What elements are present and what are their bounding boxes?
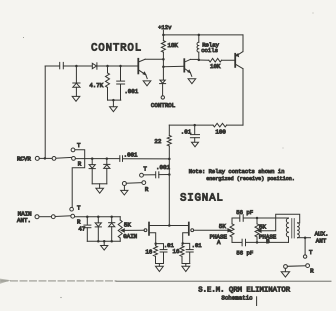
wire to Q2 base (163, 65, 184, 67)
switch S2 pole (grounded) (122, 182, 126, 186)
transformer core (291, 219, 293, 239)
svg-text:SIGNAL: SIGNAL (180, 192, 224, 204)
svg-text:5K: 5K (219, 223, 226, 230)
switch S3 contact R (71, 214, 75, 218)
capacitor C1 (series, top-left line) (59, 62, 61, 68)
svg-text:Schematic: Schematic (221, 295, 253, 302)
svg-text:CONTROL: CONTROL (151, 102, 176, 109)
zener diode to ground (75, 66, 77, 83)
svg-text:coils: coils (201, 47, 218, 54)
node junction (.01 tap) (193, 124, 196, 127)
node junction +12v rail (162, 34, 165, 37)
ground (Q2 emitter) (188, 79, 196, 84)
ground (zener) (72, 96, 80, 101)
switch S2 contact T (140, 173, 144, 177)
capacitor .001 (RCVR line series) (119, 156, 121, 162)
svg-text:T: T (309, 249, 313, 256)
svg-text:energized (receive) position.: energized (receive) position. (206, 176, 295, 182)
ground (S4 pole) (281, 272, 289, 277)
wire FET1 source (150, 233, 156, 244)
switch S4 pole (grounded) (284, 265, 288, 269)
node junction (clipper2 left) (97, 215, 100, 218)
wire top branch (232, 217, 240, 219)
ground (left source) (156, 266, 164, 271)
ground (Q1 emitter) (143, 81, 151, 86)
wire 18K node down (162, 59, 164, 80)
wire top-left horizontal (RCVR pickoff to Q1 base) (45, 65, 59, 67)
transformer T1 primary (286, 218, 288, 237)
node junction (C2 tap on base line) (119, 65, 122, 68)
wire PHASE B wiper to secondary top (261, 214, 299, 231)
wire 22 resistor down to FET drains (168, 146, 170, 226)
wire S2-T to cap (143, 174, 155, 176)
svg-text:22: 22 (154, 138, 161, 145)
diode D6 (clipper2, up) (111, 217, 113, 223)
capacitor 56pF (bottom) (241, 239, 243, 246)
wire top rail (163, 34, 243, 36)
node junction (PHASE B bottom) (256, 241, 259, 244)
node junction (drains) (168, 224, 171, 227)
svg-text:B: B (266, 238, 270, 245)
capacitor .001 (S2 branch) (155, 172, 157, 178)
diode D2 (to CONTROL terminal) (160, 80, 165, 83)
svg-text:5K: 5K (124, 221, 131, 228)
switch S4 contact T (303, 255, 306, 258)
resistor 22 (vertical drop) (168, 125, 170, 135)
svg-text:.001: .001 (124, 88, 138, 95)
svg-text:10K: 10K (210, 63, 221, 70)
node junction (AUX) (304, 236, 307, 239)
scan smudge bottom-left corner (0, 279, 11, 284)
svg-text:T: T (77, 142, 81, 149)
capacitor .01 (right source) (183, 243, 190, 249)
diode D5 (clipper2, down) (97, 217, 99, 223)
switch S1 pole (52, 157, 56, 161)
wire GAIN wiper to FET1 gate (125, 229, 145, 231)
switch S4 arm (287, 265, 305, 268)
node junction (FET1 source) (154, 242, 157, 245)
wire RCVR line right to vertical (123, 158, 170, 160)
wire Q3 bottom down to mid rail (242, 69, 244, 125)
resistor 16 (right) (181, 243, 184, 245)
svg-text:.01: .01 (181, 129, 192, 136)
wire primary bottom to bottom branch (288, 237, 290, 243)
node junction (clipper2 right) (110, 215, 113, 218)
terminal CONTROL (161, 96, 164, 99)
svg-text:T: T (143, 165, 147, 172)
ground (S2 pole) (121, 190, 128, 195)
wire clipper bottom (92, 183, 107, 185)
wire signal line (S3 to gain box) (75, 216, 121, 218)
node junction (47 cap) (86, 215, 89, 218)
ground (clipper) (96, 188, 104, 193)
node junction (left vertical) (44, 157, 47, 160)
wire RCVR line to clipper/cap (75, 158, 119, 160)
terminal MAIN ANT (35, 215, 39, 219)
switch S4 contact R (306, 264, 310, 268)
svg-text:.001: .001 (124, 152, 138, 159)
capacitor .01 to ground (194, 125, 196, 134)
svg-text:ANT.: ANT. (17, 217, 31, 224)
svg-text:5K: 5K (259, 223, 266, 230)
capacitor .01 (left source) (156, 244, 164, 250)
node junction (relay / Q2 collector / 10K) (198, 59, 201, 62)
switch S3 pole (51, 215, 55, 219)
node junction (RCVR line / vertical) (168, 158, 171, 161)
svg-text:T: T (77, 205, 81, 212)
node junction (S2 line / vertical) (168, 173, 171, 176)
wire left vertical (corner down to RCVR junction) (44, 66, 46, 158)
capacitor 47 (86, 217, 88, 225)
wire bottom branch (232, 241, 242, 243)
title block divider tick (256, 297, 258, 306)
svg-text:RCVR: RCVR (17, 155, 31, 162)
node junction (Q2 base tap) (162, 65, 165, 68)
svg-text:.001: .001 (156, 164, 170, 171)
resistor 100 (horizontal) (213, 123, 227, 127)
transformer T1 secondary (298, 223, 300, 238)
wire FET2 source (183, 233, 189, 244)
switch S2 contact R (142, 181, 146, 185)
node junction (clipper left) (91, 157, 94, 160)
wire S1-T to S2-T (bypass path) (72, 150, 85, 208)
svg-text:Note: Relay contacts shown in: Note: Relay contacts shown in (189, 168, 285, 175)
wire right vertical (rail to Q3 top) (242, 35, 244, 52)
diode D3 (clipper, down) (91, 159, 93, 165)
svg-text:47: 47 (78, 225, 85, 232)
node junction (zener tap) (75, 65, 78, 68)
svg-text:16: 16 (145, 248, 152, 255)
terminal RCVR (35, 156, 39, 160)
switch S1 arm (56, 156, 72, 159)
relay coil (198, 35, 200, 42)
resistor 4.7K (107, 66, 109, 73)
transistor Q1 (137, 59, 139, 74)
resistor 10K (horizontal) (199, 59, 209, 61)
wire bottom bar (left source) (156, 263, 164, 265)
svg-text:S.E.M. QRM ELIMINATOR: S.E.M. QRM ELIMINATOR (198, 286, 291, 294)
resistor 18K (162, 35, 164, 41)
switch S3 arm (55, 215, 71, 218)
switch S3 contact T (70, 207, 74, 211)
wire +12v stub (162, 30, 164, 35)
node junction (FET2 source) (181, 242, 184, 245)
svg-text:56 pF: 56 pF (236, 209, 253, 216)
wire bottom bar (right source) (182, 263, 190, 265)
svg-text:16: 16 (173, 248, 180, 255)
node junction (4.7K tap) (106, 65, 109, 68)
svg-text:.01: .01 (192, 242, 203, 249)
diode D1 (series, pointing right) (92, 63, 96, 68)
svg-text:ANT: ANT (316, 237, 327, 244)
wire bottom of 4.7K/C2 (108, 99, 121, 101)
transistor Q3 (PNP) (234, 54, 236, 67)
node junction (Q1 collector / 18K) (162, 58, 165, 61)
capacitor 56pF (top) (239, 215, 241, 222)
switch S1 contact T (71, 148, 75, 152)
wire common drain line (150, 225, 189, 227)
wire S2 cap to vertical (159, 174, 170, 176)
svg-text:A: A (217, 239, 221, 246)
wire FET2 gate to PHASE A wiper (194, 229, 229, 231)
svg-text:100: 100 (215, 129, 226, 136)
potentiometer 5K PHASE B (256, 218, 258, 224)
wire clipper2 bottom (87, 240, 120, 242)
svg-text:56 pF: 56 pF (236, 249, 253, 256)
svg-text:GAIN: GAIN (123, 233, 137, 240)
scan specks (23, 37, 24, 38)
title block top line (1, 280, 116, 282)
svg-text:18K: 18K (167, 42, 178, 49)
capacitor C2 .001 (120, 66, 122, 81)
wire AUX down to switch (304, 238, 306, 255)
svg-text:R: R (145, 186, 149, 193)
svg-text:+12v: +12v (158, 24, 172, 31)
switch S2 arm (126, 182, 142, 185)
potentiometer 5K PHASE A (231, 218, 233, 224)
node junction (PHASE B top) (256, 217, 259, 220)
potentiometer 5K GAIN (119, 217, 121, 220)
FET Q5 (right) (188, 223, 190, 235)
ground (4.7K/C2) (110, 107, 118, 112)
svg-text:CONTROL: CONTROL (91, 43, 142, 55)
ground (clipper2) (101, 246, 108, 251)
ground (.01) (192, 142, 199, 147)
node junction (clipper right) (106, 157, 109, 160)
diode D4 (clipper, up) (106, 159, 108, 165)
svg-text:R: R (310, 268, 314, 275)
wire mid rail (169, 124, 213, 126)
transistor Q2 (183, 59, 185, 71)
wire secondary bottom to AUX (298, 237, 311, 239)
svg-text:R: R (78, 160, 82, 167)
wire RCVR to pole (39, 157, 52, 159)
wire MAIN ANT to pole (39, 216, 51, 218)
FET Q4 (left) (144, 229, 147, 232)
resistor 16 (left) (155, 244, 157, 246)
switch S1 contact R (72, 157, 76, 161)
svg-text:4.7K: 4.7K (89, 82, 103, 89)
ground (right source) (182, 266, 190, 271)
